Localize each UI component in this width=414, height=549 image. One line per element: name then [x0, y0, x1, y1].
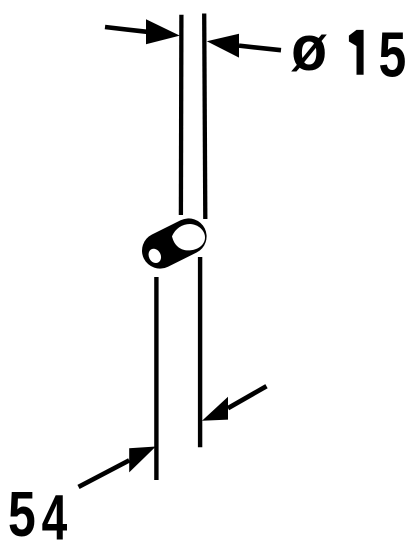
label: value 15 digit 1 (custom glyph): [349, 30, 364, 75]
pin / slider peg (cylindrical pin at -27 degrees): [146, 224, 205, 265]
svg-text:ø: ø: [291, 13, 327, 85]
leader arrow bottom (points up-right at tube lower-left edge): [79, 447, 156, 487]
wire: tube lower-left edge line: [154, 277, 158, 480]
wire: tube lower-right edge line: [198, 257, 202, 447]
svg-text:5: 5: [8, 479, 36, 549]
dimension arrow left (points right at tube left edge): [105, 19, 180, 44]
peg top face (white): [172, 224, 205, 250]
wire: tube upper-right edge line: [204, 14, 205, 220]
leader arrow middle (points down-left at tube lower-right edge): [202, 386, 267, 421]
svg-text:4: 4: [42, 482, 68, 549]
wire: tube upper-left edge line: [179, 15, 184, 215]
dimension arrow right (points left at tube right edge): [207, 34, 281, 58]
svg-text:5: 5: [379, 20, 407, 91]
peg end face hole (white): [146, 247, 163, 266]
peg body (black capsule): [160, 236, 189, 250]
